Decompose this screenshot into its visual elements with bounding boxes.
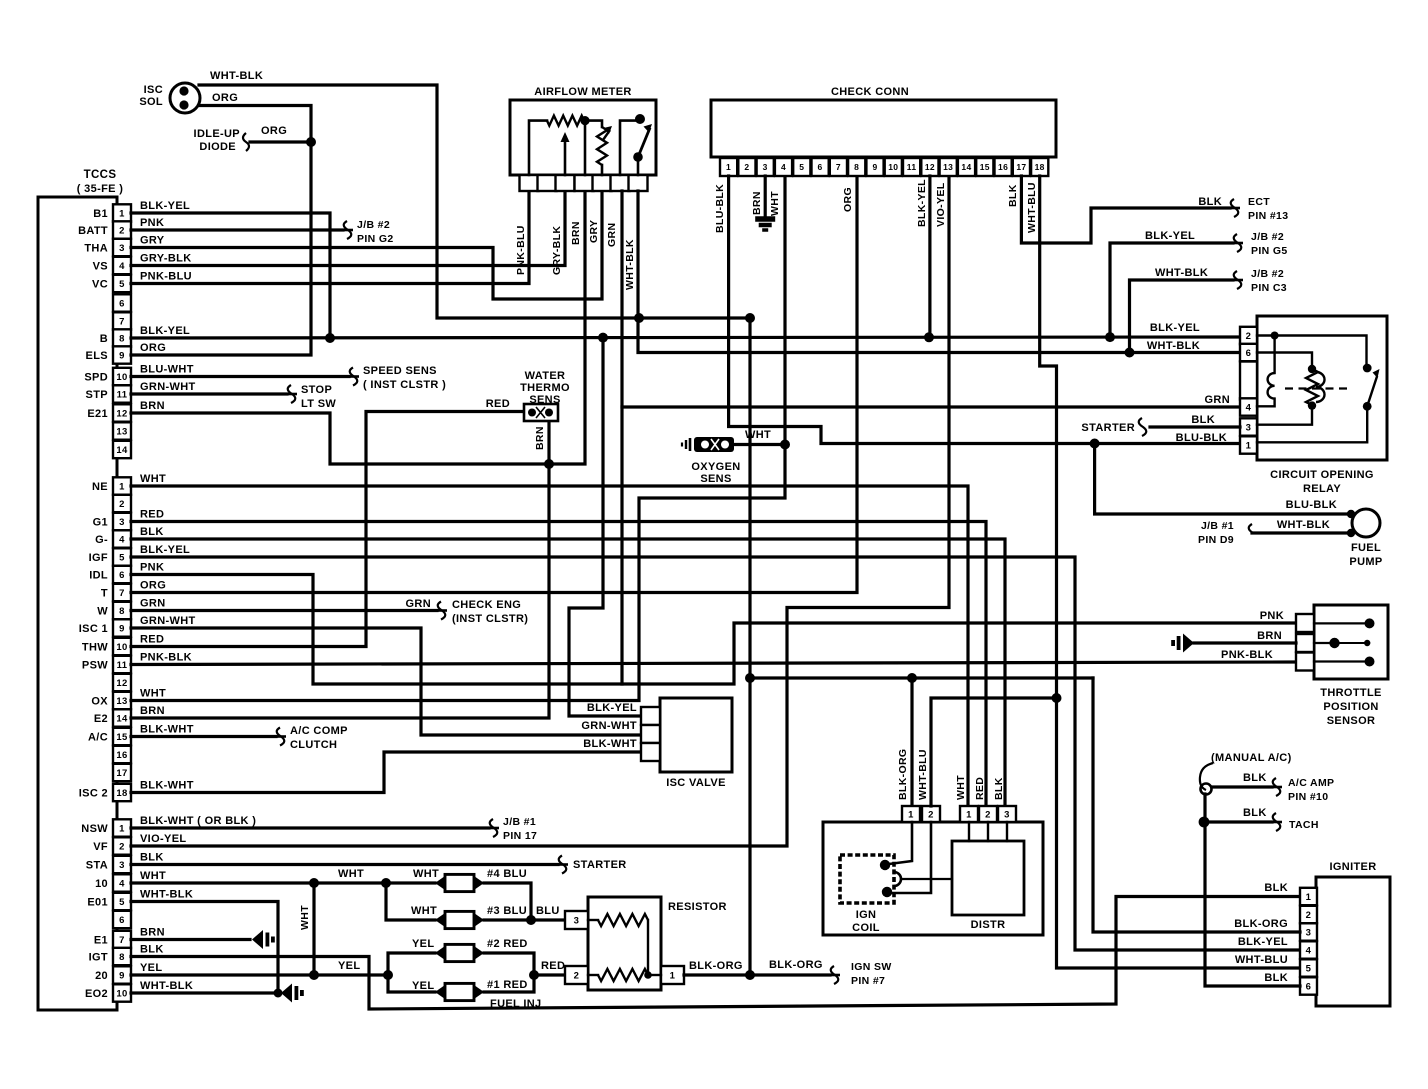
- wire IDL PNK to TPS pin1: [131, 575, 1296, 685]
- svg-text:1: 1: [908, 809, 914, 820]
- svg-text:BLU-BLK: BLU-BLK: [1286, 499, 1337, 511]
- relay switch blade: [1367, 377, 1377, 406]
- svg-text:5: 5: [119, 279, 125, 290]
- svg-text:BLK-WHT: BLK-WHT: [140, 780, 194, 792]
- svg-text:CLUTCH: CLUTCH: [290, 739, 337, 751]
- relay switch top contact: [1363, 364, 1372, 373]
- svg-text:14: 14: [116, 445, 128, 456]
- svg-text:LT SW: LT SW: [301, 398, 336, 410]
- wire #3 BLU to resistor pin3: [484, 918, 565, 921]
- ECU pin group2 pin 18: [113, 784, 131, 801]
- svg-text:THROTTLE: THROTTLE: [1320, 687, 1381, 699]
- svg-text:4: 4: [119, 261, 125, 272]
- svg-text:ORG: ORG: [842, 187, 854, 212]
- svg-text:4: 4: [1246, 403, 1252, 414]
- svg-text:G1: G1: [93, 517, 108, 529]
- wire #2 RED: [484, 953, 534, 975]
- svg-text:BLK-YEL: BLK-YEL: [587, 702, 637, 714]
- svg-text:GRN-WHT: GRN-WHT: [581, 720, 637, 732]
- svg-text:WHT: WHT: [411, 905, 437, 917]
- svg-text:THERMO: THERMO: [520, 382, 570, 394]
- svg-text:WHT: WHT: [140, 473, 166, 485]
- svg-text:THA: THA: [84, 243, 108, 255]
- svg-text:WHT: WHT: [955, 775, 967, 800]
- svg-text:ISC: ISC: [144, 84, 163, 96]
- svg-text:TCCS: TCCS: [84, 169, 117, 181]
- wire airflow GRN pin6 vertical: [620, 191, 623, 684]
- svg-text:NE: NE: [92, 481, 108, 493]
- svg-text:OX: OX: [91, 696, 108, 708]
- svg-text:ORG: ORG: [261, 125, 287, 137]
- svg-text:IGF: IGF: [89, 552, 108, 564]
- resistor pin boxes: [565, 911, 588, 929]
- svg-text:WHT: WHT: [140, 688, 166, 700]
- ECU pin group3 pin 4: [113, 874, 131, 891]
- svg-text:YEL: YEL: [412, 938, 434, 950]
- wire 10 WHT injector feed: [131, 881, 435, 884]
- junction YEL: [383, 970, 393, 980]
- svg-text:FUEL INJ: FUEL INJ: [490, 998, 542, 1010]
- TPS pin boxes: [1296, 614, 1314, 632]
- wire E01 WHT-BLK to ground: [131, 902, 278, 994]
- svg-text:5: 5: [799, 162, 804, 172]
- svg-text:WHT-BLU: WHT-BLU: [1235, 954, 1288, 966]
- relay dashed axis: [1285, 387, 1349, 389]
- ECU pin group3 pin 7: [113, 931, 131, 948]
- svg-text:#4 BLU: #4 BLU: [487, 868, 527, 880]
- svg-text:BLK: BLK: [1264, 972, 1288, 984]
- check conn pin 16: [995, 158, 1012, 176]
- svg-text:15: 15: [116, 732, 128, 743]
- AIRFLOW METER box: [510, 100, 656, 175]
- svg-text:ISC 1: ISC 1: [79, 623, 108, 635]
- TPS internals: [1314, 622, 1367, 624]
- injector #1: [435, 985, 445, 999]
- wire B1 BLK-YEL to +B bus: [131, 213, 330, 338]
- svg-text:PIN #7: PIN #7: [851, 975, 885, 987]
- svg-text:2: 2: [985, 809, 991, 820]
- svg-text:ELS: ELS: [86, 350, 108, 362]
- svg-text:BRN: BRN: [751, 191, 763, 215]
- check conn pin 5: [793, 158, 810, 176]
- svg-text:RED: RED: [541, 960, 565, 972]
- svg-text:BLK-YEL: BLK-YEL: [1238, 936, 1288, 948]
- svg-text:BRN: BRN: [1257, 630, 1282, 642]
- check conn pin 10: [885, 158, 902, 176]
- distr wire pin3: [1006, 822, 1008, 841]
- igniter pin 5: [1300, 959, 1317, 976]
- off-page arrow J/B #2 PIN G2: [343, 229, 353, 232]
- junction BLU: [526, 915, 536, 925]
- svg-text:4: 4: [119, 534, 125, 545]
- svg-text:(MANUAL A/C): (MANUAL A/C): [1211, 752, 1292, 764]
- wire THW RED to water thermo sens: [131, 412, 524, 647]
- check conn pin 8: [848, 158, 865, 176]
- wire B BLK-YEL +B bus to relay pin 2: [131, 337, 1240, 338]
- svg-text:2: 2: [928, 809, 934, 820]
- wire WHT-BLK tap to J/B#2 PIN C3: [1130, 280, 1234, 353]
- wire BLK-YEL to ISC valve pin1: [569, 338, 641, 716]
- svg-text:WHT-BLK: WHT-BLK: [1277, 519, 1330, 531]
- svg-text:WHT: WHT: [413, 868, 439, 880]
- wire check pin1 BLU-BLK to relay pin1: [729, 176, 1240, 444]
- wire injector 3 branch WHT: [386, 883, 435, 920]
- ECU pin group2 pin 13: [113, 692, 131, 709]
- ECU pin group2 pin 9: [113, 619, 131, 636]
- svg-text:6: 6: [119, 570, 125, 581]
- check conn pin 14: [958, 158, 975, 176]
- svg-text:9: 9: [119, 350, 125, 361]
- svg-text:4: 4: [119, 878, 125, 889]
- svg-text:( INST CLSTR ): ( INST CLSTR ): [363, 379, 446, 391]
- ground E1: [252, 930, 263, 949]
- wire IGF BLK-YEL to igniter pin4: [131, 557, 1300, 950]
- ECU pin group2 pin 8: [113, 602, 131, 619]
- relay pin column: [1240, 327, 1257, 344]
- svg-text:AIRFLOW METER: AIRFLOW METER: [534, 86, 631, 98]
- svg-text:BRN: BRN: [140, 927, 165, 939]
- svg-text:6: 6: [119, 915, 125, 926]
- junction B1/B: [325, 333, 335, 343]
- svg-text:PNK: PNK: [140, 217, 164, 229]
- svg-text:VF: VF: [93, 841, 108, 853]
- wire check pin12 BLK-YEL: [928, 176, 931, 337]
- svg-text:COIL: COIL: [852, 922, 880, 934]
- svg-text:RED: RED: [486, 398, 510, 410]
- wire oxygen sens WHT: [734, 443, 785, 446]
- svg-text:18: 18: [116, 788, 127, 799]
- svg-text:PNK: PNK: [1260, 610, 1284, 622]
- airflow meter internal resistor: [529, 121, 547, 175]
- check conn pin 3: [757, 158, 774, 176]
- svg-text:CIRCUIT OPENING: CIRCUIT OPENING: [1270, 469, 1374, 481]
- wire E21 BRN to airflow pin4: [131, 191, 585, 464]
- svg-text:4: 4: [1306, 945, 1312, 956]
- wire ELS ORG to ISC SOL: [131, 106, 311, 356]
- svg-text:3: 3: [1306, 927, 1312, 938]
- ECU pin group2 pin 2: [113, 495, 131, 512]
- svg-text:IGN SW: IGN SW: [851, 961, 892, 973]
- svg-text:6: 6: [119, 298, 125, 309]
- junction BLK-YEL ISC feed tap: [598, 333, 608, 343]
- svg-text:WHT: WHT: [299, 905, 311, 930]
- airflow internal potentiometer: [585, 121, 602, 127]
- check conn pin 6: [812, 158, 829, 176]
- svg-text:7: 7: [119, 935, 125, 946]
- wire STA BLK: [131, 863, 558, 866]
- igniter pin 2: [1300, 906, 1317, 923]
- check conn pin 12: [921, 158, 938, 176]
- ECU pin group2 pin 11: [113, 656, 131, 673]
- ECU pin group3 pin 2: [113, 837, 131, 854]
- svg-text:8: 8: [119, 952, 125, 963]
- check conn pin 15: [976, 158, 993, 176]
- wire ISC1 GRN-WHT to ISC valve pin2: [131, 628, 641, 735]
- svg-text:YEL: YEL: [338, 960, 360, 972]
- svg-text:RELAY: RELAY: [1303, 483, 1341, 495]
- svg-text:PSW: PSW: [82, 660, 108, 672]
- svg-text:1: 1: [1306, 892, 1312, 903]
- svg-text:BLU: BLU: [536, 905, 560, 917]
- wire T ORG to check conn pin8: [131, 176, 857, 593]
- check conn pin 11: [903, 158, 920, 176]
- wire idle-up diode ORG: [250, 140, 311, 143]
- svg-text:PIN #13: PIN #13: [1248, 210, 1288, 222]
- junction check-conn pin12: [924, 332, 934, 342]
- svg-text:EO2: EO2: [85, 988, 108, 1000]
- svg-text:IGT: IGT: [89, 952, 108, 964]
- svg-text:2: 2: [744, 162, 749, 172]
- svg-text:PIN G5: PIN G5: [1251, 245, 1288, 257]
- ECU pin group3 pin 10: [113, 984, 131, 1001]
- junction TACH: [1199, 817, 1210, 828]
- wire STARTER to relay pin3: [1150, 425, 1240, 428]
- wire BLK-ORG to igniter pin3: [1093, 678, 1300, 932]
- junction WHT-BLK airflow: [634, 313, 644, 323]
- wire check pin3 BRN to ground: [764, 176, 767, 216]
- svg-text:WHT: WHT: [140, 870, 166, 882]
- check conn pin 7: [830, 158, 847, 176]
- junction oxygen sens WHT: [780, 440, 790, 450]
- svg-text:GRY: GRY: [588, 220, 600, 243]
- wire resistor pin1 BLK-ORG to IGN SW: [684, 973, 830, 976]
- wire #1 RED: [484, 975, 534, 992]
- svg-text:SENS: SENS: [700, 473, 731, 485]
- svg-text:A/C: A/C: [88, 732, 108, 744]
- junction WHT vertical: [309, 878, 319, 888]
- distr wire pin2: [987, 822, 989, 841]
- ECU pin group1 pin 13: [113, 422, 131, 439]
- svg-text:IGNITER: IGNITER: [1329, 861, 1376, 873]
- junction injector 3 branch: [381, 878, 391, 888]
- svg-text:GRN: GRN: [406, 598, 432, 610]
- svg-text:13: 13: [116, 426, 127, 437]
- ECU pin group3 pin 8: [113, 948, 131, 965]
- svg-text:4: 4: [781, 162, 786, 172]
- coil-distr link: [901, 878, 952, 880]
- ECU pin group2 pin 4: [113, 530, 131, 547]
- svg-text:B1: B1: [93, 208, 108, 220]
- svg-text:WHT-BLK: WHT-BLK: [140, 889, 193, 901]
- svg-text:BLK-WHT ( OR BLK ): BLK-WHT ( OR BLK ): [140, 815, 256, 827]
- svg-text:2: 2: [119, 225, 125, 236]
- svg-text:8: 8: [119, 333, 125, 344]
- svg-text:(INST CLSTR): (INST CLSTR): [452, 613, 528, 625]
- ECU pin group1 pin 8: [113, 329, 131, 346]
- wire E1 BRN: [131, 938, 250, 941]
- svg-text:RED: RED: [974, 777, 986, 800]
- ECU pin group3 pin 9: [113, 966, 131, 983]
- ECU pin group3 pin 5: [113, 893, 131, 910]
- ECU pin group1 pin 4: [113, 257, 131, 274]
- check conn pin 4: [775, 158, 792, 176]
- wire BLK-ORG horizontal to igniter: [750, 676, 1093, 679]
- wire OX WHT to oxygen sens / check pin4: [131, 176, 785, 701]
- ECU pin group2 pin 7: [113, 584, 131, 601]
- junction ign coil feed: [745, 673, 755, 683]
- svg-text:2: 2: [574, 970, 580, 981]
- svg-text:J/B #1: J/B #1: [503, 816, 536, 828]
- svg-text:E1: E1: [94, 935, 108, 947]
- igniter pin 3: [1300, 923, 1317, 940]
- wire BLK to TACH: [1204, 820, 1272, 823]
- fuel pump: [1352, 509, 1380, 537]
- svg-text:11: 11: [117, 389, 128, 400]
- svg-text:T: T: [101, 588, 108, 600]
- svg-text:8: 8: [119, 606, 125, 617]
- svg-text:10: 10: [116, 372, 127, 383]
- svg-text:8: 8: [854, 162, 859, 172]
- svg-text:IDLE-UP: IDLE-UP: [194, 128, 240, 140]
- airflow internal switch: [620, 121, 636, 175]
- airflow meter pin row: [520, 175, 539, 191]
- ECU pin group1 pin 2: [113, 221, 131, 238]
- svg-text:BLU-BLK: BLU-BLK: [1176, 432, 1227, 444]
- svg-text:CHECK ENG: CHECK ENG: [452, 599, 521, 611]
- igniter pin 4: [1300, 941, 1317, 958]
- ground EO2: [281, 984, 292, 1003]
- ECU pin group3 pin 6: [113, 911, 131, 928]
- ECU pin group1 pin 10: [113, 368, 131, 385]
- CIRCUIT OPENING RELAY box: [1257, 316, 1387, 460]
- svg-text:ECT: ECT: [1248, 196, 1270, 208]
- svg-text:J/B #2: J/B #2: [1251, 268, 1284, 280]
- manual A/C connector and wires: [1200, 763, 1213, 790]
- svg-text:RED: RED: [140, 634, 164, 646]
- svg-text:SPD: SPD: [84, 372, 108, 384]
- svg-text:PNK-BLK: PNK-BLK: [1221, 649, 1273, 661]
- ECU pin group2 pin 3: [113, 513, 131, 530]
- wire J/B#1 PIN D9 WHT-BLK to fuel pump: [1252, 531, 1349, 534]
- wire E2 BRN to water thermo sens: [131, 420, 549, 718]
- ECU pin group1 pin 1: [113, 204, 131, 221]
- wire VC PNK-BLU to airflow pin1: [131, 191, 529, 284]
- injector #3: [435, 913, 445, 927]
- svg-text:GRY-BLK: GRY-BLK: [551, 226, 563, 275]
- ECU pin group2 pin 6: [113, 566, 131, 583]
- svg-text:BLU-WHT: BLU-WHT: [140, 364, 194, 376]
- svg-text:BLK: BLK: [1198, 196, 1222, 208]
- ECU pin group2 pin 17: [113, 764, 131, 781]
- svg-text:#3 BLU: #3 BLU: [487, 905, 527, 917]
- svg-text:STARTER: STARTER: [573, 859, 627, 871]
- svg-text:#1 RED: #1 RED: [487, 979, 528, 991]
- svg-text:WHT-BLU: WHT-BLU: [917, 749, 929, 800]
- svg-text:11: 11: [907, 162, 917, 172]
- CHECK CONN box: [711, 100, 1056, 157]
- wire BLK to A/C AMP: [1212, 785, 1272, 788]
- relay pin2 junction: [1271, 332, 1279, 340]
- wire airflow WHT-BLK pin7 to relay pin 6: [638, 191, 1240, 353]
- relay switch bottom contact: [1363, 402, 1372, 411]
- svg-text:PIN #10: PIN #10: [1288, 791, 1328, 803]
- svg-text:14: 14: [961, 162, 971, 172]
- svg-text:3: 3: [1246, 423, 1252, 434]
- svg-text:3: 3: [119, 517, 125, 528]
- svg-text:WHT-BLK: WHT-BLK: [1155, 267, 1208, 279]
- wire VS GRY-BLK to airflow pin3: [131, 191, 565, 266]
- svg-text:1: 1: [726, 162, 731, 172]
- svg-text:E01: E01: [87, 897, 108, 909]
- svg-text:RESISTOR: RESISTOR: [668, 901, 727, 913]
- svg-text:PNK: PNK: [140, 562, 164, 574]
- svg-text:THW: THW: [82, 642, 108, 654]
- wire NE WHT to distributor pin1: [131, 486, 968, 806]
- svg-text:BRN: BRN: [140, 400, 165, 412]
- wire THA GRY to airflow pin5: [131, 191, 602, 299]
- wire SPD BLU-WHT: [131, 375, 349, 378]
- svg-text:16: 16: [998, 162, 1008, 172]
- svg-text:1: 1: [119, 481, 125, 492]
- wire A/C BLK-WHT: [131, 735, 276, 738]
- wire YEL branch injector2: [388, 953, 435, 975]
- svg-text:ORG: ORG: [212, 92, 238, 104]
- svg-text:WHT: WHT: [338, 868, 364, 880]
- svg-text:9: 9: [872, 162, 877, 172]
- svg-text:15: 15: [980, 162, 990, 172]
- svg-text:BLK-YEL: BLK-YEL: [1145, 230, 1195, 242]
- svg-text:18: 18: [1035, 162, 1045, 172]
- svg-text:13: 13: [116, 696, 127, 707]
- svg-text:6: 6: [1306, 981, 1312, 992]
- junction E01/EO2: [274, 989, 283, 998]
- ECU pin group2 pin 15: [113, 728, 131, 745]
- svg-text:10: 10: [95, 878, 108, 890]
- svg-text:BLK: BLK: [140, 852, 164, 864]
- svg-text:1: 1: [670, 970, 676, 981]
- svg-text:BLK-WHT: BLK-WHT: [140, 724, 194, 736]
- svg-text:W: W: [97, 606, 108, 618]
- svg-text:J/B #1: J/B #1: [1201, 520, 1234, 532]
- junction BRN water thermo: [544, 459, 554, 469]
- svg-text:12: 12: [116, 678, 127, 689]
- distributor pin boxes: [960, 806, 978, 822]
- svg-text:10: 10: [116, 988, 127, 999]
- svg-text:WHT-BLK: WHT-BLK: [140, 980, 193, 992]
- coil wire pin1: [889, 822, 912, 864]
- svg-text:STA: STA: [86, 860, 108, 872]
- check conn pin 13: [940, 158, 957, 176]
- svg-text:PUMP: PUMP: [1349, 556, 1382, 568]
- wire BATT PNK: [131, 228, 343, 231]
- svg-text:BLK: BLK: [1191, 414, 1215, 426]
- wire W GRN: [131, 609, 437, 612]
- airflow internal wire to pin4: [584, 121, 587, 175]
- distr wire pin1: [968, 822, 970, 841]
- svg-text:2: 2: [119, 841, 125, 852]
- wire #4 BLU: [484, 883, 531, 920]
- wire GRN to relay pin 4: [622, 405, 1240, 408]
- ECU pin group2 pin 16: [113, 746, 131, 763]
- svg-text:14: 14: [116, 713, 128, 724]
- ECU pin group1 pin 12: [113, 404, 131, 421]
- svg-text:5: 5: [119, 897, 125, 908]
- svg-text:PIN D9: PIN D9: [1198, 534, 1234, 546]
- ECU pin group3 pin 1: [113, 819, 131, 836]
- svg-text:1: 1: [119, 823, 125, 834]
- wire VF VIO-YEL to check conn pin13: [131, 176, 949, 846]
- svg-text:E2: E2: [94, 713, 108, 725]
- ECU pin group2 pin 14: [113, 709, 131, 726]
- svg-text:20: 20: [95, 970, 108, 982]
- distributor box: [952, 841, 1024, 915]
- svg-text:BLK: BLK: [1243, 772, 1267, 784]
- relay coil left: [1268, 373, 1275, 399]
- svg-text:PNK-BLU: PNK-BLU: [140, 271, 192, 283]
- svg-text:7: 7: [836, 162, 841, 172]
- junction J/B#2 C3 tap: [1125, 348, 1135, 358]
- wire 20 YEL injector feed: [131, 973, 388, 976]
